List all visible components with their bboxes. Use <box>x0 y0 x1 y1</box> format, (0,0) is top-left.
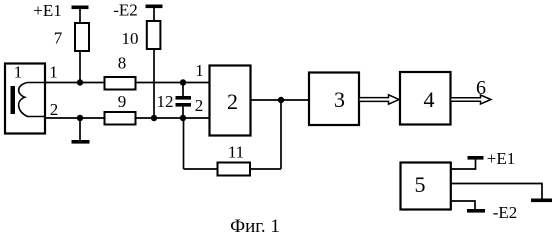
wire: top line from block 1 to block 2 <box>45 82 210 84</box>
svg-text:-E2: -E2 <box>113 1 138 20</box>
svg-text:1: 1 <box>49 63 58 82</box>
svg-text:2: 2 <box>50 100 59 119</box>
node: capacitor 12 top junction <box>180 79 186 85</box>
block 5 (power supply) <box>401 163 451 210</box>
hollow arrow from block 3 to block 4 <box>359 95 399 104</box>
wire: block 5 to +E1 bar <box>451 159 476 169</box>
wire: block 5 to -E2 bar <box>451 201 475 209</box>
block 3 <box>309 73 359 126</box>
node: output / feedback junction <box>278 97 284 103</box>
wire: top line to capacitor 12 <box>182 83 184 97</box>
resistor 11 <box>218 163 251 176</box>
ground bar (left) <box>72 140 90 144</box>
resistor 7 <box>75 23 89 51</box>
svg-text:2: 2 <box>195 96 204 115</box>
svg-text:5: 5 <box>415 172 426 197</box>
wire: block 5 to right ground <box>451 184 542 199</box>
wire: bottom line from block 1 to block 2 <box>45 117 210 119</box>
capacitor 12 top plate <box>176 96 192 100</box>
-E2 supply bar (top) <box>146 5 163 9</box>
wire: feedback vertical right <box>280 100 282 169</box>
svg-text:3: 3 <box>334 87 345 112</box>
svg-text:1: 1 <box>14 63 23 82</box>
coil winding <box>19 83 45 117</box>
wire: feedback vertical left <box>183 118 185 169</box>
hollow output arrow 6 <box>451 95 492 104</box>
block 1 (transducer) <box>5 64 45 134</box>
node: block 1 pin 2 ground junction <box>77 115 83 121</box>
ground bar (right) <box>531 199 552 203</box>
+E1 supply bar (bottom right) <box>468 156 484 160</box>
wire: resistor 7 to top line <box>79 51 81 83</box>
wire: +E1 bar to resistor 7 <box>79 9 81 23</box>
block 4 <box>400 72 451 125</box>
wire: bottom line to ground <box>79 118 81 140</box>
svg-text:8: 8 <box>118 54 127 73</box>
svg-text:Фиг. 1: Фиг. 1 <box>230 216 280 236</box>
svg-text:2: 2 <box>227 89 238 114</box>
svg-text:11: 11 <box>228 143 244 162</box>
wire: feedback from left vertical to resistor 11 <box>184 168 218 170</box>
wire: resistor 10 down to bottom line <box>153 49 155 118</box>
capacitor 12 bottom plate <box>176 103 192 107</box>
svg-text:4: 4 <box>424 87 435 112</box>
core bar of transducer <box>11 86 16 114</box>
-E2 supply bar (bottom right) <box>467 209 485 213</box>
resistor 9 <box>105 112 136 125</box>
node: resistor 10 / bottom line junction <box>151 115 157 121</box>
svg-text:1: 1 <box>195 61 204 80</box>
svg-text:7: 7 <box>54 29 63 48</box>
resistor 10 <box>147 21 161 49</box>
resistor 8 <box>105 77 136 90</box>
svg-text:10: 10 <box>122 29 139 48</box>
svg-text:12: 12 <box>157 92 174 111</box>
wire: feedback from resistor 11 to right vertical <box>250 168 281 170</box>
wire: capacitor 12 to bottom line <box>182 107 184 118</box>
node: resistor 7 / top line junction <box>77 79 83 85</box>
svg-text:+E1: +E1 <box>487 149 515 168</box>
block 2 (amplifier) <box>210 66 251 136</box>
+E1 supply bar (top) <box>72 6 89 10</box>
svg-text:-E2: -E2 <box>493 203 518 222</box>
svg-text:9: 9 <box>118 92 127 111</box>
wire: -E2 bar to resistor 10 <box>153 8 155 21</box>
node: capacitor 12 bottom junction <box>180 115 186 121</box>
wire: block 2 output to block 3 <box>251 99 310 101</box>
svg-text:+E1: +E1 <box>33 1 61 20</box>
